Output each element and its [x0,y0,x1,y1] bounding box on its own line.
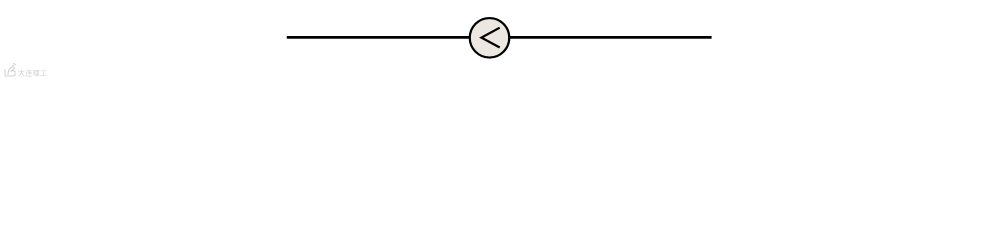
svg-text:大连理工: 大连理工 [18,69,47,78]
wire left segment [287,36,470,39]
wire right segment [509,36,712,39]
source U1 [470,18,510,58]
watermark logo [5,63,16,76]
less-than marker [481,28,499,48]
